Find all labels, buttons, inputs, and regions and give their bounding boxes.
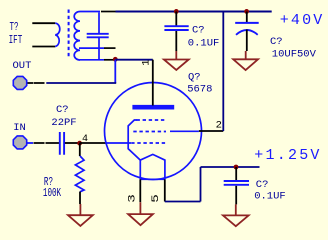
capacitor C decouple plates <box>164 26 188 30</box>
svg-text:25V: 25V <box>288 147 322 164</box>
svg-text:OUT: OUT <box>13 60 32 72</box>
tube Q1 grid3 dashes <box>137 119 168 121</box>
capacitor C bypass plates <box>224 181 249 185</box>
wire tank bottom black segment <box>104 59 115 61</box>
svg-text:10UF50V: 10UF50V <box>272 49 317 61</box>
terminal IN pad <box>13 136 26 149</box>
svg-text:0.1UF: 0.1UF <box>188 38 220 50</box>
svg-text:+40V: +40V <box>280 12 325 29</box>
svg-text:C?: C? <box>270 36 283 48</box>
wire out riser <box>114 60 116 83</box>
node junction dot tank/out <box>113 57 118 62</box>
capacitor C filter plate positive <box>235 22 259 24</box>
wire cathode riser <box>200 167 202 202</box>
svg-text:22PF: 22PF <box>51 117 76 129</box>
capacitor C filter lead bottom <box>246 30 248 52</box>
ground below filter cap <box>233 51 258 70</box>
capacitor C bypass lead bottom <box>235 186 237 205</box>
transformer T1 secondary top lead <box>80 11 100 13</box>
wire cathode to bypass <box>201 166 260 168</box>
svg-text:100K: 100K <box>43 187 61 200</box>
terminal IN stub <box>27 142 33 144</box>
svg-text:5678: 5678 <box>187 84 212 96</box>
transformer T1 primary bottom lead <box>32 46 55 48</box>
tube Q1 grid1 lead left <box>106 142 132 144</box>
svg-text:IFT: IFT <box>9 34 23 47</box>
ground below bypass cap <box>223 204 249 226</box>
transformer T1 secondary bottom lead <box>80 59 104 61</box>
pin 3 stub <box>139 179 141 202</box>
node junction dot cathode <box>234 165 239 170</box>
tube Q1 grid2 lead right <box>170 130 199 132</box>
resistor R1 lead bottom <box>79 192 81 204</box>
ground below pin 3 <box>128 202 153 225</box>
transformer T1 secondary tap lead <box>79 47 104 49</box>
capacitor tank plates <box>87 34 109 38</box>
wire screen riser <box>222 12 224 132</box>
svg-text:5: 5 <box>150 194 162 203</box>
wire cap to grid node <box>65 142 80 144</box>
svg-text:+1.: +1. <box>254 147 288 164</box>
svg-text:T?: T? <box>10 21 19 34</box>
svg-text:Q?: Q? <box>188 72 201 84</box>
terminal OUT stub <box>27 82 45 84</box>
transformer T1 primary winding arcs <box>55 23 60 46</box>
capacitor tank lead upper <box>98 13 100 34</box>
wire black segment top <box>101 11 116 13</box>
wire out horizontal <box>46 82 116 84</box>
capacitor C decouple lead top <box>175 12 177 26</box>
capacitor tank lead lower <box>98 38 100 60</box>
ground below decouple cap <box>164 51 189 70</box>
capacitor C filter lead top <box>246 12 248 23</box>
wire cathode bottom <box>165 201 201 203</box>
terminal OUT pad <box>13 76 26 89</box>
tube Q1 plate bar <box>132 105 174 110</box>
node junction dot grid <box>77 141 82 146</box>
ground below R1 <box>68 204 93 226</box>
svg-text:1: 1 <box>141 59 153 65</box>
tube Q1 envelope circle <box>105 83 202 180</box>
wire in to cap <box>34 142 60 144</box>
svg-text:3: 3 <box>126 194 138 203</box>
resistor R1 zigzag <box>75 156 84 192</box>
pin 2 stub <box>199 130 223 132</box>
transformer T1 secondary winding arcs <box>74 12 80 61</box>
tube Q1 grid3 lead to cathode <box>128 120 140 160</box>
tube Q1 grid2 dashes <box>133 131 166 133</box>
svg-text:0.1UF: 0.1UF <box>254 191 286 203</box>
svg-text:C?: C? <box>56 104 69 116</box>
resistor R1 lead top <box>79 143 81 156</box>
capacitor C bypass lead top <box>235 167 237 180</box>
capacitor C decouple lead bottom <box>175 31 177 51</box>
tube Q1 plate lead pin 1 <box>152 60 154 106</box>
wire grid node to tube <box>80 142 106 144</box>
tube Q1 grid1 dashes <box>131 142 167 144</box>
capacitor C 22PF plates <box>60 132 64 155</box>
capacitor C filter plate negative arc <box>236 30 258 35</box>
wire tap black segment <box>104 47 116 49</box>
node junction dot rail 1 <box>174 9 179 14</box>
svg-text:C?: C? <box>192 25 205 37</box>
node junction dot rail 2 <box>244 9 249 14</box>
svg-text:2: 2 <box>216 120 222 132</box>
wire top rail +40V <box>116 11 272 13</box>
transformer T1 core dashed line <box>68 10 70 58</box>
wire plate to node <box>115 59 153 61</box>
svg-text:C?: C? <box>256 179 269 191</box>
svg-text:IN: IN <box>13 122 26 134</box>
pin 5 stub <box>164 179 166 201</box>
transformer T1 primary top lead <box>32 22 55 24</box>
tube Q1 filament <box>140 154 165 179</box>
